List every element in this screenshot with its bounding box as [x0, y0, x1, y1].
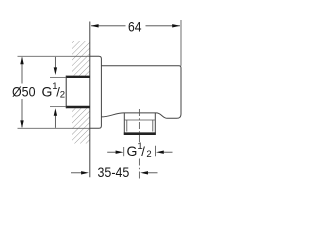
socket bottom extension line: [50, 106, 66, 108]
svg-text:35-45: 35-45: [98, 164, 130, 180]
nipple shoulder line: [124, 119, 155, 121]
G1/2 bottom left tick: [123, 147, 125, 156]
wall face line: [89, 22, 91, 178]
G1/2 bottom dim left arrow: [116, 151, 124, 154]
G1/2 bottom dim left line: [107, 151, 116, 153]
dimension 64 line: [91, 25, 126, 27]
svg-text:/: /: [141, 144, 145, 159]
nipple thread root left: [126, 120, 128, 132]
nipple outer left edge: [123, 113, 125, 135]
nipple thread root right: [152, 120, 154, 132]
svg-text:Ø50: Ø50: [12, 84, 36, 100]
socket top extension line: [50, 76, 66, 78]
dimension 35-45 right arrow: [140, 171, 148, 174]
G1/2 bottom right tick: [155, 146, 157, 156]
svg-text:2: 2: [60, 90, 65, 101]
G1/2 bottom dim right arrow: [156, 151, 164, 154]
svg-text:G: G: [127, 143, 138, 159]
dimension 35-45 right line: [148, 172, 158, 174]
dimension 64 left arrow: [91, 24, 99, 27]
socket G1/2 dim line lower segment: [54, 115, 56, 128]
wall hatching lower block: [72, 108, 90, 143]
socket G1/2 lower arrow (up): [54, 108, 57, 116]
nipple bottom face: [124, 132, 156, 135]
Ø50 upper arrow (up): [20, 57, 23, 65]
Ø50 top extension line: [18, 55, 91, 57]
socket left edge: [65, 76, 67, 109]
Ø50 dim line upper segment: [21, 58, 23, 84]
socket G1/2 dim line upper segment: [54, 57, 56, 68]
wall hatching upper block: [72, 41, 90, 76]
nipple center line: [138, 109, 140, 144]
Ø50 dim line lower segment: [21, 99, 23, 127]
body outline: [101, 66, 181, 119]
socket thread bottom edge: [66, 106, 90, 108]
socket G1/2 upper arrow (down): [54, 67, 57, 75]
dimension 35-45 left arrow: [81, 171, 89, 174]
dimension 35-45 left line: [71, 172, 81, 174]
dimension 64 right arrow: [172, 24, 180, 27]
G1/2 bottom dim right line: [163, 151, 172, 153]
nipple outer right edge: [154, 113, 156, 135]
Ø50 bottom extension line: [18, 127, 91, 129]
svg-text:G: G: [42, 84, 53, 100]
socket thread top edge: [66, 76, 90, 78]
svg-text:64: 64: [128, 19, 142, 35]
Ø50 lower arrow (down): [20, 120, 23, 128]
svg-text:2: 2: [146, 149, 151, 160]
64 dim right extension line: [180, 20, 182, 66]
escutcheon outline: [90, 56, 102, 128]
